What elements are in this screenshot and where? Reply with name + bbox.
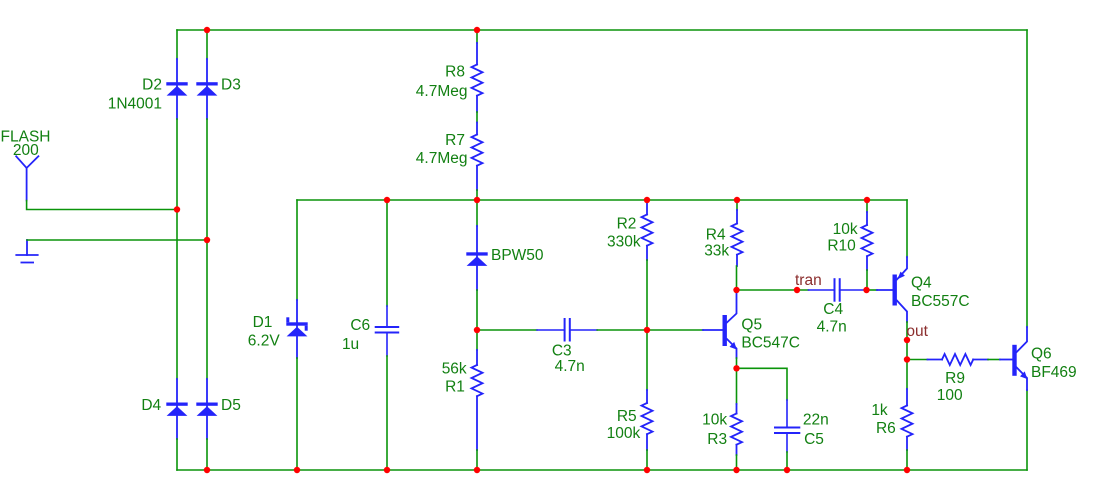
node bottom rail / R3 [733, 467, 739, 473]
wire D1 column upper [296, 200, 298, 300]
wire C6 column upper [386, 200, 388, 306]
svg-text:BPW50: BPW50 [491, 247, 544, 264]
svg-text:R2: R2 [617, 216, 637, 233]
wire R2 to base node [646, 260, 648, 330]
svg-text:22n: 22n [803, 412, 829, 429]
node BPW50 / R1 / C3 wire [474, 327, 480, 333]
resistor R3 [731, 404, 742, 455]
wire out node to R9 [907, 359, 928, 361]
wire D2 to FLASH junction down to D4 [176, 119, 178, 379]
node bottom rail / R1 [474, 467, 480, 473]
node Q5 collector / R4 / tran wire [733, 287, 739, 293]
wire base node to R5 [646, 330, 648, 390]
svg-text:4.7Meg: 4.7Meg [416, 83, 468, 100]
svg-text:BC557C: BC557C [911, 293, 970, 310]
wire D4 to bottom rail [176, 439, 178, 470]
wire C6 to bottom rail [386, 356, 388, 470]
wire BPW50 to C3 node [476, 290, 478, 330]
svg-text:BC547C: BC547C [741, 334, 800, 351]
node tran [794, 287, 800, 293]
zener D1 [286, 300, 307, 358]
transistor Q4 [877, 257, 907, 322]
wire top rail [177, 29, 1027, 31]
node bottom rail / D1 [294, 467, 300, 473]
capacitor C3 [537, 319, 597, 341]
wire mid rail right end down to Q4 emitter [906, 200, 908, 257]
capacitor C5 [775, 400, 799, 452]
node out [904, 337, 910, 343]
resistor R6 [902, 389, 913, 450]
wire R7 to mid rail [476, 190, 478, 200]
wire out node to R6 [906, 360, 908, 390]
node mid rail / R2 [644, 197, 650, 203]
svg-text:1N4001: 1N4001 [108, 95, 162, 112]
wire mid rail to R10 [866, 200, 868, 212]
wire D3 column upper [206, 30, 208, 59]
svg-text:C6: C6 [350, 317, 370, 334]
svg-text:1u: 1u [342, 336, 359, 353]
svg-text:C3: C3 [552, 342, 572, 359]
transistor Q6 [1000, 327, 1027, 390]
FLASH terminal symbol [16, 156, 38, 200]
node ground wire / D3 column [204, 237, 210, 243]
diode D3 [196, 59, 217, 119]
wire mid rail [297, 199, 907, 201]
resistor R2 [642, 202, 653, 260]
wire R1 to bottom rail [476, 450, 478, 470]
wire R6 to bottom rail [906, 450, 908, 470]
svg-text:C5: C5 [804, 431, 824, 448]
node out / R9 [904, 356, 910, 362]
node Q5 emitter / R3 / C5 wire [733, 365, 739, 371]
svg-text:D3: D3 [221, 77, 241, 94]
resistor R5 [642, 390, 653, 450]
capacitor C6 [376, 306, 399, 356]
node top rail / D3 column [204, 27, 210, 33]
wire emitter node to C5 [737, 368, 788, 400]
ground [16, 240, 37, 263]
svg-text:Q6: Q6 [1031, 345, 1052, 362]
svg-text:BF469: BF469 [1031, 364, 1077, 381]
wire D2 column upper [176, 30, 178, 59]
svg-text:out: out [906, 323, 928, 340]
wire emitter node to R3 [736, 368, 738, 404]
wire FLASH terminal to D2 column [27, 201, 177, 210]
node C4 / R10 / Q4 base [863, 287, 869, 293]
svg-text:D5: D5 [221, 397, 241, 414]
resistor R1 [472, 350, 483, 450]
transistor Q5 [703, 291, 737, 358]
wire D5 to bottom rail [206, 439, 208, 470]
wire R5 to bottom rail [646, 450, 648, 470]
svg-text:4.7n: 4.7n [817, 319, 847, 336]
wire between R8 and R7 [476, 112, 478, 123]
wire C3 row left [477, 329, 537, 331]
svg-text:1k: 1k [871, 402, 888, 419]
wire mid rail to R4 [736, 200, 738, 210]
capacitor C4 [809, 279, 867, 301]
svg-text:D1: D1 [253, 314, 273, 331]
node mid rail / R7 / BPW50 [474, 197, 480, 203]
svg-text:10k: 10k [833, 221, 858, 238]
svg-text:D4: D4 [141, 397, 161, 414]
node bottom rail / R5 [644, 467, 650, 473]
wire right edge from top rail down to Q6 collector [1026, 30, 1028, 327]
node mid rail / R4 [734, 197, 740, 203]
svg-text:R3: R3 [707, 431, 727, 448]
wire C4 node to Q4 base [867, 289, 878, 291]
wire R10 to C4 node [866, 270, 868, 290]
svg-text:4.7Meg: 4.7Meg [416, 150, 468, 167]
svg-text:200: 200 [13, 142, 39, 159]
wire R4 to Q5 collector node [736, 266, 738, 291]
wire bottom rail [177, 469, 1027, 471]
diode D4 [166, 379, 187, 439]
resistor R7 [472, 123, 483, 191]
wire ground to D3 column [27, 239, 207, 241]
svg-text:D2: D2 [142, 77, 162, 94]
svg-text:4.7n: 4.7n [555, 358, 585, 375]
node mid rail / R10 [864, 197, 870, 203]
node bottom rail / C5 [784, 467, 790, 473]
diode D2 [166, 59, 187, 119]
wire R3 to bottom rail [736, 455, 738, 470]
svg-text:R5: R5 [617, 408, 637, 425]
node base row / R2 / R5 [644, 327, 650, 333]
svg-text:10k: 10k [702, 412, 727, 429]
node bottom rail / R6 [904, 467, 910, 473]
svg-text:56k: 56k [442, 360, 467, 377]
svg-text:100: 100 [937, 387, 963, 404]
svg-text:R7: R7 [445, 132, 465, 149]
wire node to R1 [476, 330, 478, 350]
resistor R8 [472, 43, 483, 112]
node bottom rail / C6 [384, 467, 390, 473]
wire C3 to Q5 base [597, 329, 703, 331]
wire mid rail to BPW50 [476, 200, 478, 226]
svg-text:330k: 330k [607, 233, 641, 250]
node mid rail / C6 [384, 197, 390, 203]
resistor R10 [862, 212, 873, 270]
svg-text:R1: R1 [445, 379, 465, 396]
svg-text:R8: R8 [445, 64, 465, 81]
svg-text:tran: tran [795, 272, 822, 289]
svg-text:R9: R9 [945, 370, 965, 387]
svg-text:33k: 33k [704, 243, 729, 260]
node FLASH wire / D2 column [174, 206, 180, 212]
svg-text:C4: C4 [823, 301, 843, 318]
node top rail / R8 [474, 27, 480, 33]
svg-text:6.2V: 6.2V [248, 333, 281, 350]
svg-text:Q5: Q5 [741, 316, 762, 333]
wire Q5 emitter to emitter node [736, 358, 738, 368]
wire top rail to R8 [476, 30, 478, 43]
resistor R9 [928, 354, 989, 365]
svg-text:100k: 100k [607, 425, 641, 442]
photodiode BPW50 [466, 226, 487, 290]
wire R9 to Q6 base [988, 359, 1000, 361]
node bottom rail / D5 [204, 467, 210, 473]
svg-text:Q4: Q4 [911, 274, 932, 291]
wire D1 to bottom rail [296, 358, 298, 470]
wire D3 to ground junction down to D5 [206, 119, 208, 379]
wire C5 to bottom rail [786, 452, 788, 470]
wire Q6 emitter to bottom rail [1026, 390, 1028, 470]
wire Q4 collector to out node [906, 322, 908, 360]
svg-text:R10: R10 [827, 237, 856, 254]
diode D5 [196, 379, 217, 439]
wire tran row [737, 289, 809, 291]
svg-text:R6: R6 [876, 420, 896, 437]
svg-text:R4: R4 [706, 226, 726, 243]
resistor R4 [732, 210, 743, 266]
